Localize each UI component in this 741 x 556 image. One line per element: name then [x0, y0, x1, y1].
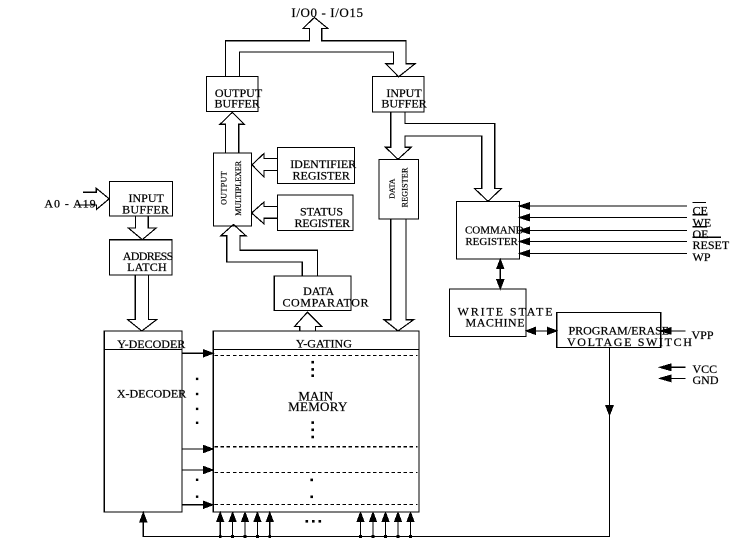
svg-text:VOLTAGE SWITCH: VOLTAGE SWITCH [567, 335, 694, 349]
block OUTPUT BUFFER [207, 76, 259, 111]
svg-text:OUTPUT: OUTPUT [220, 171, 229, 205]
svg-text:MACHINE: MACHINE [466, 316, 526, 330]
arrow A0-A19 into INPUT BUFFER (hollow right) [76, 188, 109, 209]
block PROGRAM/ERASE VOLTAGE SWITCH [557, 312, 661, 347]
block INPUT BUFFER (address) [110, 182, 173, 217]
wire PROGRAM/ERASE VOLTAGE SWITCH down to bottom bus [143, 348, 609, 537]
arrow IDENTIFIER REGISTER to OUTPUT MULTIPLEXER (hollow left) [252, 154, 278, 177]
block DATA COMPARATOR [274, 276, 351, 310]
dots between X-DECODER and MAIN MEMORY [196, 378, 198, 380]
svg-text:BUFFER: BUFFER [122, 203, 169, 217]
svg-text:LATCH: LATCH [127, 260, 167, 274]
wire bitline 6 [360, 519, 362, 537]
wire bitline 1 [219, 519, 221, 537]
bottom bus arrows into MAIN MEMORY [217, 513, 414, 538]
dots vertical ellipsis inside MAIN MEMORY (upper) [311, 361, 314, 364]
block ADDRESS LATCH [110, 240, 173, 275]
wire CE into COMMAND REGISTER [528, 205, 687, 207]
dots horizontal ellipsis on bottom bus [306, 520, 309, 523]
labels [291, 5, 363, 20]
block COMMAND REGISTER [457, 202, 520, 260]
wire COMMAND REGISTER to WRITE STATE MACHINE (double arrow) [499, 264, 501, 284]
wire WRITE STATE MACHINE to PROGRAM/ERASE VOLTAGE SWITCH (double arrow) [530, 330, 553, 332]
wire bitline 4 [256, 519, 258, 537]
divider under Y-GATING [213, 349, 419, 351]
wire bitline 7 [372, 519, 374, 537]
block IDENTIFIER REGISTER [278, 148, 355, 184]
arrowhead down on program/erase line [606, 406, 613, 415]
arrow DATA COMPARATOR to OUTPUT MULTIPLEXER (hollow bent up) [221, 224, 318, 276]
svg-text:VPP: VPP [692, 328, 714, 342]
wire/arrow INPUT BUFFER to DATA REGISTER and COMMAND REGISTER (hollow channel) [385, 112, 501, 201]
wire GND [662, 377, 686, 379]
dashed partition 2 [215, 446, 418, 448]
svg-text:GND: GND [693, 373, 719, 387]
svg-text:REGISTER: REGISTER [465, 236, 518, 248]
overbar OE [693, 226, 708, 228]
arrow Y-GATING to DATA COMPARATOR (hollow up) [295, 312, 322, 331]
svg-text:X-DECODER: X-DECODER [117, 387, 186, 401]
wire bitline 2 [232, 519, 234, 537]
wire X-DECODER row select 1 [182, 352, 206, 354]
wires and arrows [76, 18, 501, 332]
svg-text:REGISTER: REGISTER [400, 167, 409, 207]
overbar WE [693, 214, 708, 216]
svg-text:REGISTER: REGISTER [295, 216, 351, 230]
arrowhead up into X-DECODER [140, 513, 147, 522]
svg-text:MULTIPLEXER: MULTIPLEXER [234, 160, 243, 215]
wire bitline 8 [385, 519, 387, 537]
svg-text:I/O0 - I/O15: I/O0 - I/O15 [291, 5, 363, 20]
overbar RESET [693, 236, 722, 238]
dashed partition 3 [215, 472, 418, 474]
wire/arrow I/O bus: up-arrow to I/O0-I/O15 and hollow channel to OUTPUT BUFFER and INPUT BUFFER [226, 18, 416, 77]
svg-text:Y-GATING: Y-GATING [296, 336, 352, 350]
wire bitline 9 [397, 519, 399, 537]
wire OE into COMMAND REGISTER [528, 230, 687, 232]
svg-text:BUFFER: BUFFER [381, 97, 426, 111]
overbar CE [693, 202, 707, 204]
block X/Y-DECODER [104, 331, 182, 512]
dashed partition 1 [215, 355, 418, 357]
wire X-DECODER row select 4 [182, 504, 206, 506]
svg-text:Y-DECODER: Y-DECODER [117, 337, 185, 351]
wire bitline 5 [269, 519, 271, 537]
arrow ADDRESS LATCH to Y-DECODER (hollow down) [127, 275, 156, 331]
wire RESET into COMMAND REGISTER [528, 241, 687, 243]
dot inside MAIN MEMORY lower 2 [310, 496, 313, 499]
arrow INPUT BUFFER to ADDRESS LATCH (hollow down) [128, 216, 156, 240]
block WRITE STATE MACHINE [450, 289, 527, 337]
svg-text:MEMORY: MEMORY [288, 399, 348, 414]
overbars [693, 203, 722, 238]
divider under Y-DECODER [104, 349, 182, 351]
wire WE into COMMAND REGISTER [528, 217, 687, 219]
arrow DATA REGISTER to Y-GATING (hollow down) [384, 219, 414, 331]
block MAIN MEMORY / Y-GATING [213, 331, 419, 512]
svg-text:COMMAND: COMMAND [465, 224, 524, 236]
svg-text:WP: WP [693, 250, 711, 264]
svg-text:A0 - A19: A0 - A19 [44, 196, 96, 210]
svg-text:REGISTER: REGISTER [293, 169, 350, 183]
wire bitline 10 [410, 519, 412, 537]
ellipsis dots [196, 361, 321, 523]
wire WP into COMMAND REGISTER [528, 253, 687, 255]
arrow OUTPUT MULTIPLEXER to OUTPUT BUFFER (hollow up) [220, 112, 244, 153]
wire bitline 3 [244, 519, 246, 537]
svg-text:DATA: DATA [387, 178, 396, 199]
dashed partition 4 [215, 503, 418, 505]
block INPUT BUFFER (top) [373, 77, 425, 113]
block DATA REGISTER [379, 160, 419, 220]
dot inside MAIN MEMORY lower 1 [310, 479, 313, 482]
svg-text:BUFFER: BUFFER [215, 97, 260, 111]
wire X-DECODER row select 3 [182, 469, 206, 471]
wire VPP into PROGRAM/ERASE VOLTAGE SWITCH [663, 330, 686, 332]
block STATUS REGISTER [278, 195, 354, 231]
wire VCC [662, 366, 686, 368]
svg-text:COMPARATOR: COMPARATOR [282, 295, 369, 309]
wire X-DECODER row select 2 [182, 448, 206, 450]
arrow STATUS REGISTER to OUTPUT MULTIPLEXER (hollow left) [252, 202, 278, 224]
dashed block partitions in MAIN MEMORY [215, 356, 418, 505]
dots vertical ellipsis inside MAIN MEMORY (middle) [311, 421, 314, 424]
block OUTPUT MULTIPLEXER [214, 153, 252, 226]
